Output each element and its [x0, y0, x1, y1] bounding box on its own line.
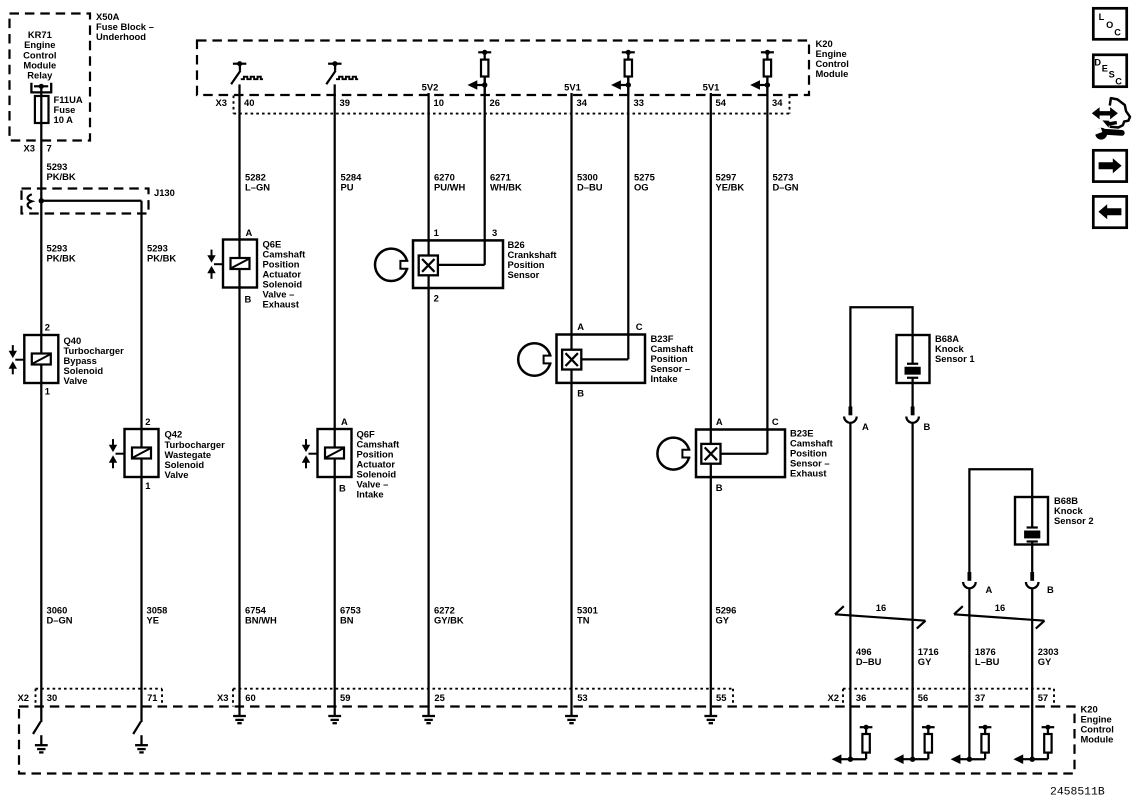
svg-text:A: A — [986, 584, 993, 595]
svg-text:BN/WH: BN/WH — [245, 615, 277, 626]
svg-text:Module: Module — [1081, 734, 1114, 745]
svg-text:D–GN: D–GN — [773, 181, 799, 192]
svg-text:O: O — [1106, 20, 1113, 30]
svg-text:60: 60 — [245, 692, 255, 703]
svg-text:GY: GY — [716, 615, 730, 626]
svg-text:B: B — [339, 483, 346, 494]
svg-text:16: 16 — [876, 602, 886, 613]
svg-text:Exhaust: Exhaust — [263, 298, 299, 309]
svg-text:56: 56 — [918, 692, 928, 703]
svg-text:5V2: 5V2 — [422, 81, 439, 92]
svg-text:GY/BK: GY/BK — [434, 615, 464, 626]
svg-text:TN: TN — [577, 615, 590, 626]
svg-text:X3: X3 — [24, 143, 35, 154]
svg-text:5V1: 5V1 — [564, 81, 581, 92]
svg-text:37: 37 — [975, 692, 985, 703]
svg-text:B: B — [924, 421, 931, 432]
svg-text:34: 34 — [577, 97, 588, 108]
svg-text:Sensor 2: Sensor 2 — [1054, 515, 1094, 526]
svg-text:J130: J130 — [154, 187, 175, 198]
svg-text:C: C — [636, 321, 643, 332]
svg-text:YE/BK: YE/BK — [716, 181, 745, 192]
svg-text:B: B — [577, 388, 584, 399]
svg-text:36: 36 — [856, 692, 866, 703]
svg-text:B: B — [245, 294, 252, 305]
svg-text:WH/BK: WH/BK — [490, 181, 522, 192]
svg-text:C: C — [1115, 76, 1122, 86]
svg-text:OG: OG — [634, 181, 649, 192]
svg-text:71: 71 — [147, 692, 157, 703]
svg-text:30: 30 — [47, 692, 57, 703]
svg-text:X2: X2 — [828, 692, 839, 703]
svg-text:26: 26 — [490, 97, 500, 108]
svg-text:34: 34 — [772, 97, 783, 108]
svg-text:59: 59 — [340, 692, 350, 703]
svg-text:2458511B: 2458511B — [1050, 786, 1105, 798]
svg-text:A: A — [862, 421, 869, 432]
svg-text:3: 3 — [492, 227, 497, 238]
svg-text:A: A — [577, 321, 584, 332]
svg-text:YE: YE — [147, 615, 160, 626]
svg-text:L–BU: L–BU — [975, 656, 1000, 667]
svg-text:B: B — [1047, 584, 1054, 595]
svg-text:X3: X3 — [216, 97, 227, 108]
svg-text:5V1: 5V1 — [703, 81, 720, 92]
svg-text:X3: X3 — [217, 692, 228, 703]
svg-text:A: A — [341, 416, 348, 427]
svg-text:L–GN: L–GN — [245, 181, 270, 192]
svg-text:A: A — [246, 227, 253, 238]
svg-text:D–BU: D–BU — [577, 181, 603, 192]
svg-text:Module: Module — [816, 68, 849, 79]
svg-text:2: 2 — [45, 322, 50, 333]
svg-text:L: L — [1099, 12, 1105, 22]
svg-text:PK/BK: PK/BK — [47, 171, 76, 182]
svg-text:E: E — [1102, 63, 1108, 73]
svg-text:S: S — [1109, 70, 1115, 80]
svg-text:B: B — [716, 482, 723, 493]
svg-text:A: A — [716, 416, 723, 427]
svg-text:Intake: Intake — [651, 373, 678, 384]
svg-text:D: D — [1094, 58, 1101, 68]
svg-text:BN: BN — [340, 615, 354, 626]
svg-text:GY: GY — [1038, 656, 1052, 667]
svg-text:1: 1 — [145, 480, 150, 491]
svg-text:1: 1 — [45, 386, 50, 397]
svg-text:C: C — [772, 416, 779, 427]
svg-text:25: 25 — [434, 692, 444, 703]
svg-text:Sensor: Sensor — [508, 269, 540, 280]
svg-text:Valve: Valve — [165, 469, 189, 480]
svg-text:1: 1 — [434, 227, 439, 238]
svg-text:7: 7 — [47, 143, 52, 154]
svg-text:Underhood: Underhood — [96, 31, 146, 42]
svg-text:C: C — [1114, 28, 1121, 38]
svg-text:PK/BK: PK/BK — [147, 253, 176, 264]
svg-text:40: 40 — [244, 97, 254, 108]
svg-text:55: 55 — [716, 692, 726, 703]
svg-text:Valve: Valve — [64, 375, 88, 386]
svg-text:2: 2 — [434, 293, 439, 304]
svg-text:54: 54 — [716, 97, 727, 108]
svg-text:Intake: Intake — [357, 489, 384, 500]
svg-text:PU/WH: PU/WH — [434, 181, 465, 192]
svg-text:Relay: Relay — [27, 69, 53, 80]
svg-text:D–GN: D–GN — [47, 615, 73, 626]
svg-text:57: 57 — [1038, 692, 1048, 703]
svg-text:PK/BK: PK/BK — [47, 253, 76, 264]
svg-text:PU: PU — [341, 181, 354, 192]
svg-text:Exhaust: Exhaust — [790, 468, 826, 479]
svg-text:39: 39 — [340, 97, 350, 108]
svg-text:Sensor 1: Sensor 1 — [935, 353, 975, 364]
svg-text:10 A: 10 A — [54, 114, 74, 125]
svg-text:2: 2 — [145, 416, 150, 427]
svg-text:10: 10 — [434, 97, 444, 108]
svg-text:16: 16 — [995, 602, 1005, 613]
svg-text:X2: X2 — [18, 692, 29, 703]
svg-text:GY: GY — [918, 656, 932, 667]
svg-text:D–BU: D–BU — [856, 656, 882, 667]
svg-text:33: 33 — [634, 97, 644, 108]
svg-text:53: 53 — [577, 692, 587, 703]
